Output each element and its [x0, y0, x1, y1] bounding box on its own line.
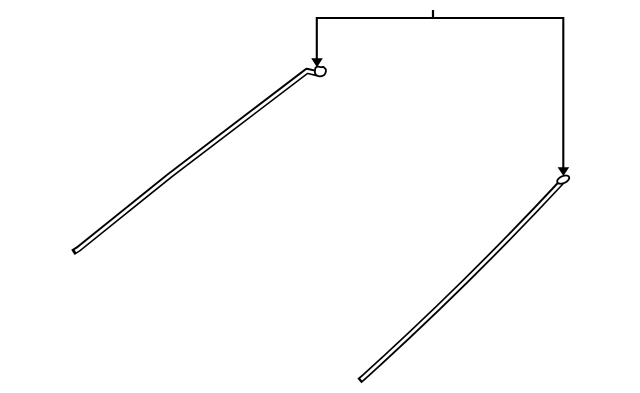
needle 2 shaft core (white)	[361, 183, 561, 380]
needle 1 eye loop	[315, 67, 326, 77]
arrowhead right (points to needle 2 eye)	[558, 167, 570, 176]
wire: bracket connector (left drop, horizontal span, right drop)	[317, 18, 564, 168]
needle 2 shaft outline (black)	[359, 181, 562, 381]
needle 1 shaft core (white)	[75, 71, 318, 251]
needle 1 shaft outline (black)	[73, 71, 319, 253]
tick at bracket midpoint	[432, 10, 434, 17]
arrowhead left (points to needle 1 eye)	[311, 58, 323, 67]
needle 2 eye loop	[556, 174, 571, 186]
